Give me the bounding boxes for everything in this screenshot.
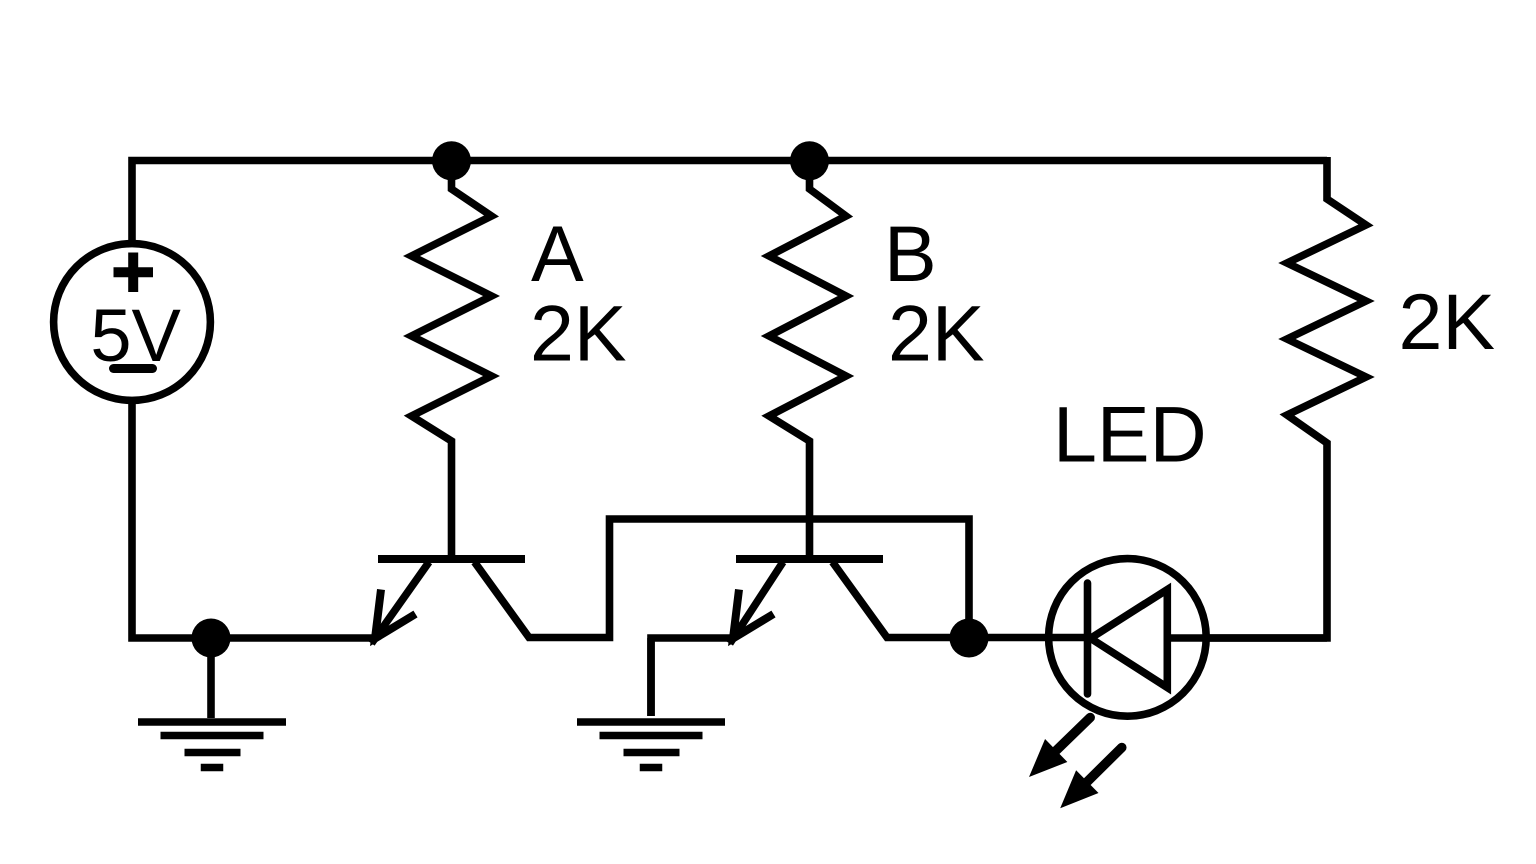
- transistor Q2 emitter wire to ground: [651, 638, 733, 716]
- transistor Q2 collector wire to LED node: [833, 562, 1088, 638]
- LED light arrow 1: [1056, 718, 1090, 751]
- ground symbol under source: [138, 638, 286, 768]
- svg-text:LED: LED: [1053, 389, 1207, 478]
- transistor Q1 (A) base bar: [378, 555, 525, 563]
- transistor Q1 emitter arrowhead: [375, 590, 416, 639]
- transistor Q2 emitter arrowhead: [733, 590, 774, 639]
- LED right wire to resistor R3: [1167, 634, 1327, 642]
- svg-text:2K: 2K: [888, 289, 985, 378]
- node dot junction collectors / LED: [950, 619, 989, 658]
- transistor Q1 emitter shaft: [372, 562, 430, 643]
- voltage source V1 (5V): [54, 244, 211, 401]
- svg-text:A: A: [531, 209, 584, 298]
- resistor R3 2K right: [1205, 157, 1366, 638]
- transistor Q2 emitter shaft: [730, 562, 783, 644]
- svg-text:B: B: [884, 209, 937, 298]
- resistor B 2K: [769, 161, 846, 560]
- node dot junction top rail / resistor A: [432, 141, 471, 180]
- LED light arrow 2: [1087, 748, 1122, 782]
- svg-text:2K: 2K: [1399, 277, 1496, 366]
- wire top rail from source to right resistor: [132, 161, 1327, 245]
- transistor Q2 (B) base bar: [736, 555, 883, 563]
- LED D1 circle: [1049, 559, 1207, 717]
- minus sign of V1: [114, 364, 153, 373]
- plus sign of V1: [114, 253, 154, 293]
- transistor Q1 collector and cross wire to LED node: [475, 519, 970, 638]
- wire source bottom to ground rail: [132, 398, 375, 638]
- LED triangle: [1091, 590, 1168, 688]
- svg-text:2K: 2K: [530, 289, 627, 378]
- resistor A 2K: [412, 161, 492, 560]
- LED cathode bar: [1084, 583, 1092, 694]
- node dot junction top rail / resistor B: [790, 141, 829, 180]
- node dot junction ground rail: [192, 619, 231, 658]
- ground symbol under Q2 emitter: [577, 638, 725, 768]
- svg-text:5V: 5V: [90, 294, 181, 377]
